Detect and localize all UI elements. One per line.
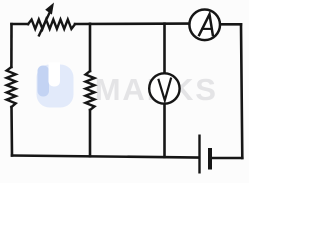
ammeter label A (199, 14, 213, 36)
wire middle vertical (top section) (89, 24, 92, 71)
resistor R2 (left branch) zigzag (7, 67, 16, 107)
rheostat arrow head (45, 3, 54, 15)
watermark logo squircle (37, 63, 74, 108)
wire bottom-right (battery to right corner) (211, 157, 242, 160)
voltmeter label V (158, 78, 171, 101)
wire left vertical (bottom section) (10, 107, 13, 156)
wire voltmeter branch (top section) (163, 24, 166, 74)
wire bottom (left corner to battery) (12, 156, 199, 158)
wire right vertical (241, 24, 242, 158)
wire top-left horizontal (corner to rheostat) (12, 23, 29, 26)
wire voltmeter branch (bottom section) (163, 104, 166, 158)
wire middle vertical (bottom section) (89, 110, 92, 156)
battery short plate (negative) (208, 148, 212, 170)
wire ammeter to top-right corner (221, 23, 241, 26)
resistor R3 (middle branch) zigzag (86, 71, 95, 110)
voltmeter U2 circle (149, 73, 179, 103)
ammeter U1 circle (189, 9, 220, 40)
rheostat arrow shaft (39, 9, 52, 37)
wire left vertical (top section) (10, 24, 13, 67)
wire top middle (rheostat to ammeter) (75, 22, 189, 25)
rheostat R1 zigzag element (28, 20, 75, 29)
battery long plate (positive) (198, 135, 200, 174)
